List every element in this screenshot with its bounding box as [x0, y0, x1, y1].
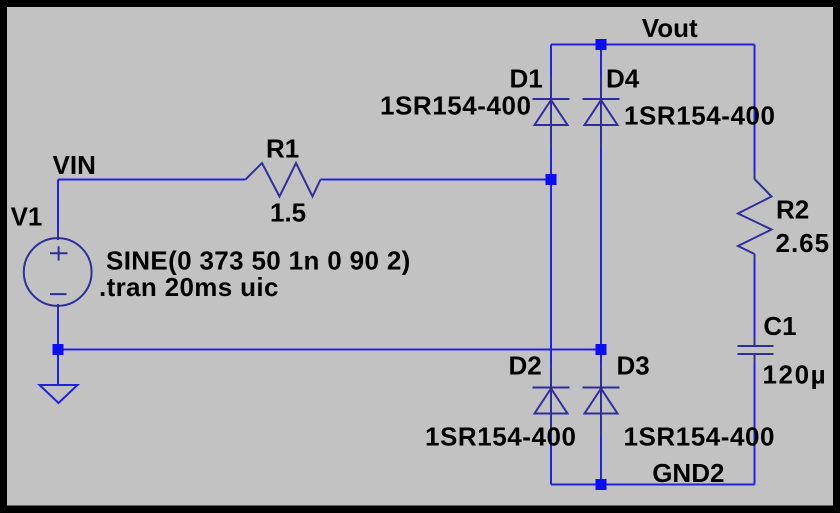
svg-text:D2: D2 [509, 351, 542, 381]
diode D4 [583, 77, 620, 147]
wire D1 branch top [550, 45, 552, 100]
svg-text:1SR154-400: 1SR154-400 [380, 91, 532, 121]
svg-text:Vout: Vout [642, 13, 698, 43]
svg-text:1SR154-400: 1SR154-400 [425, 422, 577, 452]
wire lower rail (V1 to D3 branch) [58, 349, 601, 351]
svg-text:D4: D4 [606, 64, 640, 94]
wire R2 to C1 [754, 254, 756, 346]
resistor R1 [246, 163, 321, 197]
svg-text:120µ: 120µ [763, 360, 828, 390]
svg-text:C1: C1 [763, 311, 796, 341]
wire D1 to D2 [550, 125, 552, 388]
svg-text:D3: D3 [617, 351, 650, 381]
wire D4 branch top [600, 45, 602, 100]
svg-text:1SR154-400: 1SR154-400 [624, 101, 776, 131]
diode D3 [583, 366, 620, 436]
svg-text:D1: D1 [510, 64, 543, 94]
wire V1 bottom to ground [57, 306, 59, 385]
svg-text:GND2: GND2 [652, 458, 724, 488]
junction at V1 ground node [53, 344, 64, 355]
wire D3 bottom [600, 414, 602, 485]
svg-text:1.5: 1.5 [270, 198, 306, 228]
wire D4 to D3 [600, 125, 602, 388]
wire D2 bottom [550, 414, 552, 485]
wire VIN rail right (R1 to D1 branch) [321, 179, 552, 181]
svg-text:VIN: VIN [53, 150, 96, 180]
wire bottom GND2 rail [551, 484, 755, 486]
wire right branch top [754, 45, 756, 180]
junction at R1/D1 branch node [546, 174, 557, 185]
voltage source V1 [24, 231, 92, 313]
svg-text:2.65: 2.65 [776, 228, 831, 258]
capacitor C1 [738, 337, 774, 363]
junction at GND2 rail node [596, 479, 607, 490]
resistor R2 [738, 172, 772, 261]
svg-text:R1: R1 [266, 134, 299, 164]
svg-text:1SR154-400: 1SR154-400 [624, 422, 776, 452]
wire VIN rail left [58, 179, 246, 181]
wire top Vout rail [551, 44, 755, 46]
diode D2 [533, 366, 570, 436]
ground [40, 385, 78, 403]
svg-text:R2: R2 [776, 194, 809, 224]
svg-text:.tran 20ms uic: .tran 20ms uic [99, 272, 279, 302]
junction at D3 mid node [596, 344, 607, 355]
svg-text:SINE(0 373 50 1n 0 90 2): SINE(0 373 50 1n 0 90 2) [106, 245, 411, 275]
junction at Vout/D4 node [596, 39, 607, 50]
wire C1 to bottom rail [754, 354, 756, 485]
wire V1 top lead [57, 180, 59, 239]
svg-text:V1: V1 [11, 202, 43, 232]
diode D1 [533, 77, 570, 147]
